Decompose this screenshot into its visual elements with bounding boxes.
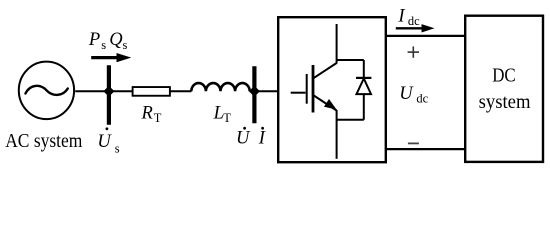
svg-text:R: R: [141, 104, 153, 124]
svg-text:s: s: [115, 141, 120, 155]
svg-text:DC: DC: [492, 65, 516, 87]
svg-text:Q: Q: [109, 30, 123, 50]
svg-text:system: system: [479, 91, 531, 113]
svg-text:U: U: [236, 129, 251, 149]
svg-text:U: U: [97, 132, 112, 152]
svg-text:dc: dc: [408, 14, 420, 28]
svg-text:I: I: [397, 6, 405, 26]
svg-text:L: L: [213, 104, 224, 124]
svg-text:T: T: [154, 111, 162, 125]
svg-text:I: I: [258, 129, 266, 149]
svg-text:s: s: [123, 38, 128, 52]
svg-text:dc: dc: [416, 92, 428, 106]
svg-text:U: U: [399, 84, 414, 104]
svg-text:AC system: AC system: [5, 130, 82, 152]
svg-text:P: P: [88, 30, 100, 50]
svg-text:T: T: [223, 111, 231, 125]
svg-text:s: s: [101, 38, 106, 52]
